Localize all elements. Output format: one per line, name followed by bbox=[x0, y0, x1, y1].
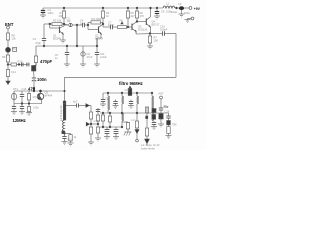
ground osc1 bbox=[11, 111, 17, 113]
svg-text:22p: 22p bbox=[164, 105, 169, 109]
trimmer col4 dark bbox=[167, 121, 171, 125]
svg-text:47p: 47p bbox=[33, 95, 38, 99]
capacitor ladder2 top bbox=[96, 109, 100, 111]
node pot right bbox=[127, 26, 129, 28]
arrow into ladder bbox=[86, 122, 89, 126]
wire collector Q2 to C7 bbox=[102, 24, 104, 27]
junction dark bbox=[62, 131, 65, 134]
inductor L1 bbox=[163, 6, 175, 8]
wire x77 down to bus bbox=[76, 25, 78, 46]
resistor R9 bbox=[6, 55, 9, 62]
capacitor Cb bbox=[62, 136, 66, 138]
oscillator top wire bbox=[14, 90, 65, 92]
wire main vertical drop bbox=[64, 77, 66, 101]
svg-text:2N2218: 2N2218 bbox=[138, 28, 148, 32]
ground C9 bbox=[179, 13, 185, 15]
capacitor C4 series bbox=[82, 23, 84, 27]
resistor R6 bbox=[136, 7, 138, 9]
component D1 bbox=[32, 66, 36, 72]
wire C7 to pot bbox=[113, 26, 118, 28]
inductor L2 dense bbox=[63, 104, 66, 120]
resistor R2 bbox=[52, 23, 62, 26]
inductor L2 loops bbox=[62, 120, 64, 134]
component aux box bbox=[13, 48, 17, 52]
resistor Rosc bbox=[28, 91, 30, 94]
capacitor C6 electrolytic bbox=[82, 46, 84, 52]
capacitor Cf0 dark bbox=[129, 87, 131, 89]
capacitor C10 bbox=[150, 33, 163, 35]
wire ladder col2 bbox=[97, 108, 99, 138]
capacitor Cf1 bbox=[115, 100, 117, 102]
svg-text:470: 470 bbox=[140, 14, 145, 18]
svg-text:P1: P1 bbox=[120, 19, 124, 23]
node y64 bbox=[18, 64, 20, 66]
svg-text:10uH: 10uH bbox=[171, 10, 177, 14]
svg-text:100n: 100n bbox=[33, 106, 39, 110]
node left column bbox=[7, 64, 9, 66]
wire ladder cross bbox=[91, 123, 98, 125]
resistor R3 bbox=[91, 21, 101, 24]
ground ant bbox=[158, 123, 164, 125]
capacitor Cg2 bbox=[109, 113, 111, 116]
ground col2 bbox=[151, 126, 157, 128]
transistor Q3 bbox=[131, 24, 133, 31]
svg-text:4p7: 4p7 bbox=[73, 100, 78, 104]
trimmer ant dark bbox=[159, 114, 163, 120]
terminal input left bbox=[7, 26, 10, 29]
svg-text:22k: 22k bbox=[12, 37, 17, 41]
svg-text:XT1: XT1 bbox=[13, 87, 18, 91]
node bus x44 bbox=[43, 45, 45, 47]
ground Cb bbox=[62, 141, 68, 143]
node rail Q4 bbox=[150, 7, 152, 9]
capacitor C5 bbox=[66, 46, 68, 53]
bus wire emitter decoupling bbox=[36, 45, 97, 47]
svg-text:C8: C8 bbox=[161, 10, 165, 14]
svg-text:ANT: ANT bbox=[158, 92, 164, 96]
capacitor Cosc3 bbox=[21, 104, 23, 107]
wire y133 bbox=[65, 132, 71, 134]
ground Q1 emitter bbox=[60, 39, 66, 41]
ground 0V bbox=[185, 19, 191, 21]
node fb2 bbox=[109, 112, 111, 114]
capacitor C11 bbox=[96, 46, 98, 53]
node g1 bbox=[102, 126, 104, 128]
capacitor C3 bbox=[43, 24, 45, 39]
resistor Rb bbox=[70, 133, 72, 134]
node bus x67 bbox=[66, 45, 68, 47]
svg-text:100: 100 bbox=[154, 39, 159, 43]
svg-text:R9: R9 bbox=[2, 55, 6, 59]
node g2 bbox=[109, 126, 111, 128]
antenna terminal bbox=[160, 96, 163, 99]
node Q1 base bbox=[49, 23, 51, 25]
wire Q1 base left bbox=[44, 23, 50, 25]
svg-text:4k7: 4k7 bbox=[131, 14, 136, 18]
svg-text:C14: C14 bbox=[11, 70, 16, 74]
node osc mid bbox=[39, 90, 41, 92]
ground osc3 bbox=[26, 112, 32, 114]
capacitor ant bbox=[159, 107, 163, 109]
terminal 0V bbox=[191, 17, 194, 20]
svg-text:sobre ferrite: sobre ferrite bbox=[141, 147, 155, 151]
wire below L2 bbox=[64, 131, 66, 137]
resistor R5 bbox=[127, 7, 129, 9]
component end box y64 bbox=[27, 63, 30, 66]
capacitor C7 bbox=[110, 25, 112, 29]
inductor Lg2 bbox=[152, 113, 154, 121]
capacitor C2 trimmer bbox=[69, 23, 72, 26]
potentiometer P1 bbox=[118, 26, 127, 29]
node f3 bbox=[136, 92, 138, 94]
capacitor Cg6 bbox=[136, 113, 138, 121]
arrow right bbox=[86, 104, 90, 108]
ground C11 bbox=[94, 63, 100, 65]
node R4 bottom bbox=[102, 23, 104, 25]
arrow R12 out bbox=[145, 139, 150, 144]
capacitor Cosc1 bbox=[21, 91, 23, 95]
svg-text:10k: 10k bbox=[59, 14, 64, 18]
svg-text:100n: 100n bbox=[184, 11, 190, 15]
svg-text:10nF: 10nF bbox=[108, 23, 114, 27]
svg-text:10n: 10n bbox=[80, 21, 85, 25]
capacitor series y64 bbox=[21, 63, 23, 67]
column2 trimmer caps bbox=[153, 121, 155, 123]
svg-text:R2 10k: R2 10k bbox=[53, 19, 62, 23]
svg-text:C9: C9 bbox=[178, 2, 182, 6]
transistor Q4 bbox=[145, 19, 147, 26]
svg-text:R10: R10 bbox=[18, 60, 23, 64]
capacitor Cosc4 bbox=[28, 104, 30, 107]
lower rail 2 bbox=[100, 126, 122, 128]
inductor Lf3 bbox=[137, 96, 139, 104]
svg-text:L2 5 esp 22: L2 5 esp 22 bbox=[59, 105, 63, 121]
node y133 bbox=[64, 132, 66, 134]
svg-text:C19: C19 bbox=[105, 97, 110, 101]
capacitor C13 bbox=[32, 77, 36, 79]
node ladder2 bbox=[97, 123, 99, 125]
svg-text:10p: 10p bbox=[67, 19, 72, 23]
ground Cg4 bbox=[113, 136, 119, 138]
svg-text:+9V: +9V bbox=[194, 7, 201, 11]
resistor R12 bbox=[146, 119, 148, 128]
svg-text:2,2uF: 2,2uF bbox=[100, 55, 107, 59]
wire rail to col4 bbox=[152, 112, 169, 114]
node ladder1 bbox=[90, 123, 92, 125]
resistor ladder1a bbox=[89, 112, 92, 119]
inductor Lf2 bbox=[122, 96, 124, 104]
wire to C4cap bbox=[77, 24, 83, 26]
svg-text:BC548: BC548 bbox=[53, 37, 61, 41]
node fb4 bbox=[136, 112, 138, 114]
capacitor C8 bbox=[156, 7, 158, 9]
wire C10 to right drop bbox=[165, 33, 177, 35]
svg-text:R3 100k: R3 100k bbox=[92, 17, 102, 21]
svg-text:12MHz: 12MHz bbox=[13, 118, 26, 123]
svg-text:47uF: 47uF bbox=[87, 55, 93, 59]
ground Cf5 bbox=[100, 103, 106, 105]
capacitor Cg5 bbox=[126, 123, 129, 130]
node Q3 collector bbox=[136, 21, 138, 23]
resistor ladder2b bbox=[96, 127, 99, 133]
ground osc2 bbox=[19, 111, 25, 113]
svg-text:ENT: ENT bbox=[5, 22, 14, 27]
ground Cf2 bbox=[128, 105, 134, 107]
ground Rb bbox=[68, 142, 74, 144]
column4 capacitor bbox=[168, 113, 170, 116]
capacitor Cf5 bbox=[102, 93, 104, 100]
capacitor Cg4 bbox=[115, 127, 117, 130]
svg-text:BD137: BD137 bbox=[152, 23, 160, 27]
svg-text:BF494: BF494 bbox=[45, 94, 53, 98]
wire C2 to C4 node bbox=[72, 24, 77, 26]
column1 resistor out bbox=[146, 107, 148, 113]
transistor Q1 bbox=[59, 27, 61, 34]
node osc join bbox=[64, 90, 66, 92]
wire to arrow bbox=[79, 105, 86, 107]
svg-text:47u: 47u bbox=[68, 138, 73, 142]
inductor Lf1 bbox=[108, 96, 110, 110]
ground C8 bbox=[154, 15, 160, 17]
transistor Q5 bbox=[37, 93, 43, 99]
capacitor C12 electrolytic box bbox=[34, 56, 37, 63]
ground C1 bbox=[40, 14, 46, 16]
resistor ladder2a bbox=[96, 115, 99, 121]
svg-text:47pF: 47pF bbox=[35, 41, 41, 45]
filter bottom rail bbox=[100, 112, 152, 114]
capacitor C1 bbox=[42, 8, 44, 11]
wire C4 to Q2 base bbox=[85, 24, 89, 26]
resistor col4 bbox=[168, 125, 170, 127]
svg-text:C18: C18 bbox=[94, 119, 99, 123]
component XT trimmer dark bbox=[6, 47, 11, 52]
node fb1 bbox=[102, 112, 104, 114]
ground Cg5 crossed bbox=[125, 131, 132, 133]
ground R7 bbox=[147, 45, 153, 47]
ground ladder1 bbox=[88, 141, 94, 143]
wire Q1 collector to C2 bbox=[64, 24, 68, 25]
resistor R1 bbox=[63, 7, 65, 9]
svg-text:75R: 75R bbox=[172, 123, 177, 127]
capacitor Cosc2 bbox=[13, 104, 15, 107]
node f4 bbox=[151, 92, 153, 94]
svg-text:BC548: BC548 bbox=[95, 37, 103, 41]
node x34 y88 bbox=[33, 87, 35, 89]
wire top supply rail bbox=[43, 7, 163, 9]
inductor Lg1 bbox=[122, 113, 124, 121]
svg-text:L4: 4 esp. fio 22: L4: 4 esp. fio 22 bbox=[141, 143, 160, 147]
capacitor Cg1 bbox=[102, 113, 104, 115]
wire ladder col1 bbox=[90, 106, 92, 143]
capacitor Cf2 bbox=[130, 100, 132, 102]
svg-text:C20: C20 bbox=[125, 88, 130, 92]
wire tap bbox=[66, 105, 77, 107]
node Q2 base bbox=[87, 24, 89, 26]
wire rail after L1 bbox=[175, 7, 189, 9]
oscillator mid wire bbox=[14, 103, 42, 105]
node osc x22 bbox=[21, 103, 23, 105]
node bus x77 bbox=[76, 45, 78, 47]
node f1 bbox=[107, 92, 109, 94]
resistor R4 bbox=[102, 7, 104, 9]
svg-text:filtro 96MHz: filtro 96MHz bbox=[119, 81, 143, 86]
wire pot to Q3 base bbox=[128, 26, 132, 28]
ground Cg3 bbox=[104, 136, 110, 138]
terminal +9V bbox=[189, 7, 192, 10]
node fb3 bbox=[121, 112, 123, 114]
arrow down feed bbox=[6, 81, 10, 84]
node Q4 emitter bbox=[149, 33, 151, 35]
capacitor C9 bbox=[179, 6, 184, 10]
resistor ladder1b bbox=[89, 127, 92, 134]
filter top rail bbox=[103, 92, 152, 94]
resistor R10 side bbox=[8, 64, 11, 66]
ground Cf1 bbox=[113, 105, 119, 107]
inductor Lf4 bbox=[152, 96, 154, 110]
wire Q2 emitter to bus bbox=[96, 38, 98, 46]
component C14 box bbox=[7, 65, 9, 70]
wire into oscillator bbox=[33, 88, 35, 91]
ground ladder2 bbox=[95, 137, 101, 139]
svg-text:MIC: MIC bbox=[12, 47, 17, 51]
wire left audio column bbox=[35, 46, 37, 56]
transistor Q2 bbox=[98, 27, 100, 34]
node f2 bbox=[121, 92, 123, 94]
capacitor Cg3 bbox=[106, 127, 108, 130]
svg-text:100pF: 100pF bbox=[160, 28, 168, 32]
svg-text:470pF: 470pF bbox=[40, 59, 53, 64]
ground col4 bbox=[166, 135, 172, 137]
crystal X1 bbox=[13, 91, 15, 94]
svg-text:47p: 47p bbox=[28, 87, 36, 92]
ground C5 bbox=[64, 63, 70, 65]
node x77 bbox=[76, 24, 78, 26]
svg-text:100n: 100n bbox=[48, 11, 54, 15]
terminal Cg6 bbox=[136, 139, 139, 142]
capacitor series small bbox=[63, 101, 66, 104]
ground C6 bbox=[80, 63, 86, 65]
capacitor Ct1 bbox=[76, 104, 78, 108]
svg-text:C16: C16 bbox=[165, 110, 170, 114]
capacitor col2 bbox=[152, 122, 156, 124]
resistor R8 bbox=[7, 29, 9, 33]
svg-text:C3: C3 bbox=[33, 37, 37, 41]
main line to filter bbox=[65, 76, 177, 78]
resistor R7 bbox=[148, 36, 151, 43]
svg-text:C15: C15 bbox=[22, 87, 27, 91]
node after L1 bbox=[176, 7, 178, 9]
node bus x97 bbox=[96, 45, 98, 47]
arrow Cg6 bbox=[135, 130, 139, 134]
node Q1 collector bbox=[63, 23, 65, 25]
svg-text:100n: 100n bbox=[37, 77, 47, 82]
